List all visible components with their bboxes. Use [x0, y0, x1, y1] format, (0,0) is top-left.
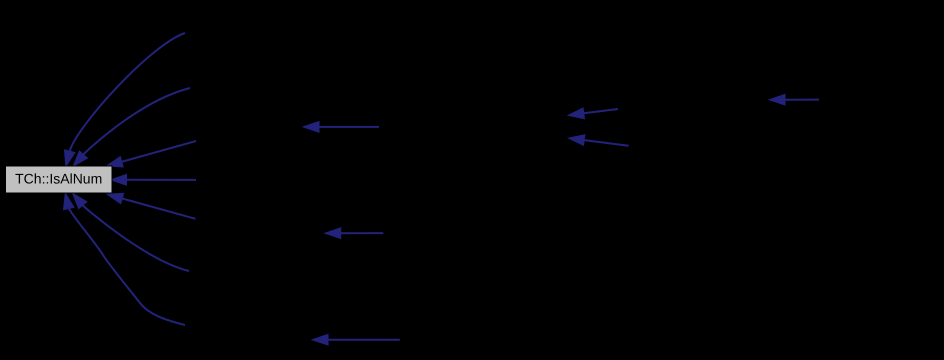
wire edge level3 top-right — [769, 94, 819, 105]
wire edge level2 row5 — [325, 228, 383, 239]
wire edge caller3 -> TCh::IsAlNum — [107, 141, 197, 167]
wire edge level2 row3 — [303, 122, 379, 133]
wire edge caller1 -> TCh::IsAlNum — [65, 33, 186, 166]
svg-text:TCh::IsAlNum: TCh::IsAlNum — [15, 170, 102, 186]
node TCh::IsAlNum — [6, 166, 113, 193]
wire edge caller5 -> TCh::IsAlNum — [107, 193, 195, 219]
wire edge level3 mid lower — [569, 135, 629, 146]
wire edge caller7 -> TCh::IsAlNum — [64, 193, 186, 325]
wire edge caller6 -> TCh::IsAlNum — [73, 193, 190, 271]
wire edge level2 row7 — [312, 334, 400, 345]
wire edge caller2 -> TCh::IsAlNum — [73, 88, 190, 166]
wire edge level3 mid upper — [568, 108, 618, 119]
wire edge caller4 -> TCh::IsAlNum — [111, 174, 196, 185]
